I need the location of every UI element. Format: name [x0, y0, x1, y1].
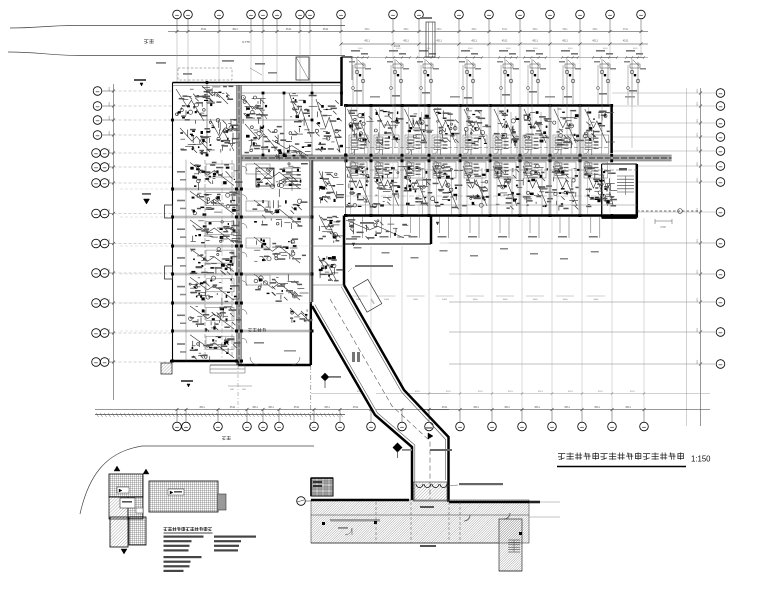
svg-text:4511: 4511 [109, 178, 111, 183]
right wing dimension stacks below bottom wall [353, 217, 355, 233]
road hatch (bottom) [95, 414, 345, 416]
corridor band vertical left wing (gray) [237, 85, 242, 365]
lower block room cluster (activity room) [351, 225, 354, 228]
right wing horizontal pipe lines [346, 147, 611, 149]
tall riser stack [426, 22, 435, 57]
annotation right of corridor [430, 449, 452, 451]
site plan left block (hatched) [109, 474, 143, 497]
left wing room clusters west [216, 170, 218, 173]
bottom grid bubbles [173, 422, 182, 431]
fire corridor label [352, 352, 355, 362]
top grid second dimension line (right wing) [341, 43, 648, 45]
left grid bubbles (singles) [93, 87, 102, 96]
svg-text:1000: 1000 [503, 299, 509, 301]
svg-text:1000: 1000 [568, 48, 574, 50]
svg-text:4511: 4511 [294, 405, 300, 409]
left grid bubbles (pairs) [92, 149, 101, 158]
fire corridor east wall (diagonal) [344, 285, 449, 502]
svg-text:4511: 4511 [564, 405, 570, 409]
svg-text:4511: 4511 [323, 27, 329, 31]
svg-text:4511: 4511 [109, 328, 111, 333]
entry porch steps [210, 364, 245, 366]
svg-text:4511: 4511 [109, 162, 111, 167]
svg-text:4511: 4511 [109, 101, 111, 106]
site plan small marks [136, 508, 143, 513]
svg-text:4511: 4511 [230, 405, 236, 409]
right grid leader lines [612, 92, 716, 94]
rotated dimension box on corridor [353, 279, 382, 312]
center dashed line below lower block [310, 365, 312, 426]
legend text bottom block [164, 556, 202, 558]
svg-text:4511: 4511 [353, 405, 359, 409]
top grid dimension line [168, 31, 648, 33]
svg-text:3871: 3871 [697, 238, 699, 244]
section bubble J [297, 497, 306, 506]
grid extension lines lower right [370, 246, 372, 408]
right wing top wall [344, 104, 612, 107]
svg-text:4511: 4511 [534, 405, 540, 409]
left wing column squares [171, 188, 174, 191]
pipe to right bubble (dashed) [637, 210, 702, 212]
drawing title 教工宿舍地下层顶面给排水平面图 [558, 453, 565, 455]
stair 1# steps (east end) [617, 175, 634, 177]
svg-text:1000: 1000 [413, 299, 419, 301]
svg-text:4511: 4511 [364, 28, 370, 31]
legend title 地下层防火分区平面示意图 [164, 527, 168, 529]
svg-text:1:150: 1:150 [691, 455, 711, 464]
svg-text:4511: 4511 [324, 405, 330, 409]
svg-text:3871: 3871 [697, 269, 699, 275]
middle block partitions [313, 206, 344, 208]
west wall bay step-outs [165, 205, 173, 218]
svg-text:4511: 4511 [415, 391, 420, 393]
site plan right end block [218, 494, 227, 510]
site plan lower-left block (diag hatch) [110, 517, 128, 547]
svg-text:3871: 3871 [697, 88, 699, 94]
arrow at corridor exit [428, 433, 433, 439]
svg-text:4511: 4511 [364, 39, 370, 43]
svg-text:1000: 1000 [473, 299, 479, 301]
middle block east wall [345, 106, 347, 216]
svg-text:4511: 4511 [109, 148, 111, 153]
svg-text:1000: 1000 [426, 48, 432, 50]
riser clusters above right wing [352, 57, 368, 59]
middle lower block walls [343, 216, 346, 286]
left wing faint row grid lines [120, 188, 172, 190]
svg-text:4511: 4511 [623, 39, 629, 43]
junction column squares [206, 81, 209, 84]
svg-text:4511: 4511 [286, 27, 292, 31]
svg-text:4511: 4511 [109, 298, 111, 303]
stair block east end outline [602, 163, 637, 165]
right wing east wall [610, 106, 613, 154]
svg-text:4511: 4511 [471, 39, 477, 43]
junction block partitions [206, 83, 208, 156]
level mark mid corridor [436, 222, 439, 225]
svg-text:1000: 1000 [563, 299, 569, 301]
left wing top wall [173, 82, 342, 84]
section extension lines right [529, 501, 560, 503]
svg-text:4511: 4511 [109, 268, 111, 273]
sump pit flag 1# [321, 373, 329, 381]
svg-text:1000: 1000 [533, 48, 539, 50]
svg-text:4511: 4511 [502, 39, 508, 43]
left wing inner east wall [311, 160, 313, 302]
svg-text:4511: 4511 [562, 39, 568, 43]
fire corridor west wall (diagonal) [312, 306, 412, 500]
svg-text:4511: 4511 [630, 391, 635, 393]
site plan label strips inside bar [168, 489, 184, 495]
svg-text:4511: 4511 [532, 28, 538, 31]
svg-text:1000: 1000 [633, 48, 639, 50]
level mark -3.050 (bottom) [187, 384, 190, 387]
right vertical dimension line [700, 88, 702, 426]
svg-text:3871: 3871 [697, 118, 699, 124]
svg-text:1000: 1000 [396, 48, 402, 50]
section slab band (hatched) [311, 500, 529, 543]
svg-text:4511: 4511 [109, 86, 111, 91]
svg-text:4511: 4511 [109, 115, 111, 120]
bottom dimension line [95, 409, 710, 411]
stair block labels [604, 170, 611, 172]
svg-text:4511: 4511 [592, 28, 598, 31]
svg-text:3871: 3871 [697, 297, 699, 303]
entry hall label 入口大堂 [248, 328, 252, 330]
svg-text:3871: 3871 [697, 161, 699, 167]
svg-text:4511: 4511 [446, 391, 451, 393]
parapet/step top-left above wing [296, 57, 309, 80]
left wing west wall [172, 83, 174, 362]
section top slab thick line [311, 499, 409, 502]
road label 道路 (bottom) [222, 436, 226, 438]
svg-text:1000: 1000 [442, 299, 448, 301]
svg-text:4511: 4511 [592, 39, 598, 43]
site road curve [80, 446, 314, 514]
svg-text:4511: 4511 [473, 405, 479, 409]
misc leader texts right wing top [370, 96, 380, 98]
svg-text:4511: 4511 [568, 391, 573, 393]
legend text right column [214, 536, 256, 538]
top grid leader lines into plan [176, 32, 178, 83]
entry hall sparse marks [254, 342, 264, 344]
svg-text:4511: 4511 [252, 405, 258, 409]
right wing room clusters lower [347, 174, 349, 177]
level mark in lower block [352, 243, 355, 246]
section inner lines [311, 514, 529, 516]
svg-text:4511: 4511 [201, 27, 207, 31]
svg-text:4511: 4511 [436, 39, 442, 43]
svg-text:2700: 2700 [660, 226, 666, 229]
fire corridor white mask [314, 286, 450, 501]
svg-text:4511: 4511 [625, 405, 631, 409]
arrow mark (left wing west) [144, 199, 150, 204]
site plan vertical bar (hatched) [129, 517, 146, 545]
svg-text:4511: 4511 [623, 28, 629, 31]
svg-text:3871: 3871 [697, 177, 699, 183]
elevator shaft [256, 168, 274, 186]
svg-text:4511: 4511 [562, 28, 568, 31]
top grid bubbles [173, 10, 182, 19]
section bottom edge [311, 542, 499, 544]
svg-text:4511: 4511 [109, 130, 111, 135]
svg-text:1000: 1000 [468, 48, 474, 50]
entrance courtyard wall (top middle) [340, 57, 343, 106]
entry hall bottom wall [238, 364, 311, 367]
right secondary dimension line [686, 88, 688, 426]
site plan main bar (hatched) [149, 481, 218, 512]
svg-text:4511: 4511 [199, 405, 205, 409]
svg-text:1000: 1000 [384, 299, 390, 301]
section cap annotation [447, 485, 458, 486]
svg-text:4511: 4511 [109, 357, 111, 362]
stair (junction) [283, 167, 301, 169]
title underline [557, 466, 686, 468]
right grid bubbles [716, 89, 725, 98]
corridor center dashed line (diagonal) [330, 299, 430, 499]
junction block clusters [180, 107, 182, 110]
dimension line above bottom road (right) [311, 393, 710, 395]
svg-text:3871: 3871 [697, 359, 699, 365]
svg-text:1000: 1000 [603, 48, 609, 50]
svg-text:4511: 4511 [403, 28, 409, 31]
svg-text:3871: 3871 [697, 327, 699, 333]
left wing bottom wall [170, 360, 238, 363]
section tiny labels [420, 506, 434, 508]
svg-text:4511: 4511 [403, 39, 409, 43]
svg-text:4511: 4511 [478, 391, 483, 393]
svg-text:1000: 1000 [533, 299, 539, 301]
section right stair column (hatched) [499, 519, 522, 571]
drain flag (corridor bottom) [393, 443, 403, 453]
right wing column squares [345, 104, 348, 107]
svg-text:4511: 4511 [268, 405, 274, 409]
svg-text:4511: 4511 [471, 28, 477, 31]
section door swing mark [345, 528, 352, 535]
svg-text:4511: 4511 [442, 405, 448, 409]
road (top) [10, 26, 345, 29]
canopy dashed (top of left wing) [178, 68, 232, 80]
svg-text:4511: 4511 [502, 28, 508, 31]
svg-text:4511: 4511 [109, 238, 111, 243]
site plan triangles [114, 466, 120, 471]
corridor annotation text [355, 265, 393, 267]
road label 道路 (top) [144, 39, 149, 41]
right wing bottom wall [344, 214, 637, 217]
svg-text:4511: 4511 [436, 28, 442, 31]
svg-text:3871: 3871 [697, 132, 699, 138]
lower block west wall thick [310, 302, 313, 365]
riser dimension baseline [346, 57, 648, 59]
left wing pipe vertical dashed [204, 160, 206, 358]
right wing room clusters upper [349, 123, 353, 127]
svg-text:1000: 1000 [506, 48, 512, 50]
svg-text:4511: 4511 [109, 208, 111, 213]
legend text left column [164, 536, 204, 538]
svg-text:4511: 4511 [232, 27, 238, 31]
svg-text:3871: 3871 [697, 101, 699, 107]
svg-text:1000: 1000 [358, 48, 364, 50]
svg-text:4511: 4511 [538, 391, 543, 393]
site plan left block inner label box [120, 498, 135, 508]
redraw dimension lines across corridor [376, 393, 449, 395]
misc small leaders top left [156, 62, 166, 64]
left wing east wall upper (junction) [341, 57, 343, 83]
svg-text:3871: 3871 [697, 207, 699, 213]
corridor band horizontal (gray) [237, 155, 672, 161]
svg-text:4511: 4511 [598, 391, 603, 393]
svg-text:4511: 4511 [504, 405, 510, 409]
svg-text:6.775: 6.775 [242, 40, 250, 44]
svg-text:4511: 4511 [532, 39, 538, 43]
left wing partition walls [173, 187, 237, 189]
right wing partition walls [369, 106, 371, 156]
svg-text:4511: 4511 [508, 391, 513, 393]
left grid leader dashed lines [114, 90, 173, 92]
section water tank box (left) [311, 478, 333, 496]
left wing room clusters east [267, 168, 270, 171]
corridor band vertical middle (gray) [310, 160, 314, 302]
left vertical dimension line [113, 84, 115, 400]
right wing module faint grid lines [392, 57, 394, 215]
section shaft cap (hatched with wavy top) [414, 482, 448, 501]
svg-text:3871: 3871 [697, 146, 699, 152]
svg-text:4511: 4511 [594, 405, 600, 409]
svg-text:1000: 1000 [593, 299, 599, 301]
level mark -3.050 (left) [140, 83, 143, 86]
